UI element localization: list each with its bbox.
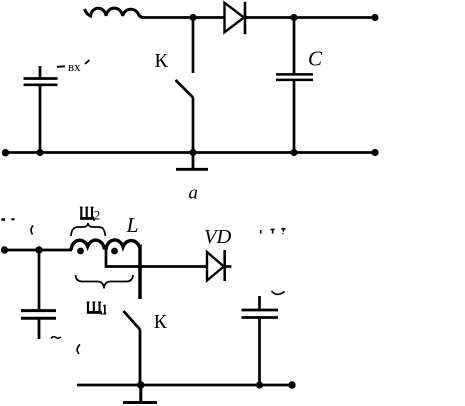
diode VD1 cathode bar — [244, 2, 247, 34]
label Cvx fragment — [57, 60, 90, 67]
switch K1 blade — [176, 80, 194, 98]
capacitor Cvx stub — [39, 66, 42, 78]
label Cn fragment — [272, 291, 285, 294]
wire diode2 output stub — [225, 265, 232, 268]
wire tap to diode — [106, 248, 207, 267]
inductor winding w1 — [106, 240, 140, 250]
svg-text:2: 2 — [94, 207, 101, 222]
svg-text:вх: вх — [68, 59, 81, 74]
label w2 — [80, 207, 94, 221]
diode VD2 cathode bar — [223, 250, 226, 281]
node junction Cvx bottom — [36, 149, 43, 156]
capacitor Cn plates — [242, 310, 279, 318]
switch K2 blade — [124, 311, 141, 330]
node input terminal bottom-left — [2, 149, 9, 156]
inductor L (top circuit) — [85, 8, 145, 17]
ground symbol 2 — [123, 385, 157, 403]
label C2 fragment — [51, 337, 61, 339]
capacitor Cvx2 lead lower — [38, 320, 41, 340]
node junction switch bottom — [189, 149, 196, 156]
label w1 — [87, 302, 102, 315]
svg-text:а: а — [189, 183, 199, 204]
capacitor Cvx2 lead upper — [38, 250, 41, 309]
svg-text:К: К — [154, 312, 168, 333]
svg-text:VD: VD — [204, 226, 232, 248]
node junction top-switch — [189, 14, 196, 21]
brace under w1w2 — [76, 275, 134, 289]
label Un fragment — [261, 229, 286, 235]
wire top rail — [142, 16, 225, 19]
node output terminal top — [371, 14, 378, 21]
capacitor C lead upper — [293, 18, 296, 74]
ground symbol a — [176, 153, 208, 170]
capacitor Cvx2 plates — [21, 311, 56, 319]
inductor winding w2 — [71, 240, 105, 250]
label bracket fragment 2 — [31, 226, 33, 235]
capacitor Cvx plates — [24, 79, 58, 85]
svg-text:L: L — [126, 213, 139, 237]
brace over w2 — [71, 223, 105, 236]
capacitor Cn lead lower — [258, 319, 261, 385]
label bracket fragment — [77, 345, 80, 355]
node junction C bottom — [290, 149, 297, 156]
capacitor C lead lower — [293, 81, 296, 153]
capacitor Cvx lead lower — [39, 86, 42, 153]
node terminal bottom-right — [288, 381, 295, 388]
node junction top-capacitor — [290, 14, 297, 21]
wire input bottom-circuit — [4, 249, 72, 252]
capacitor C plates — [276, 74, 313, 80]
node junction switch2 bottom — [137, 381, 144, 388]
wire switch upper lead — [192, 18, 195, 74]
wire bottom rail top-circuit — [6, 151, 376, 154]
wire diode to output — [245, 16, 375, 19]
wire bottom rail bottom-circuit — [77, 384, 292, 387]
capacitor Cn stub — [258, 296, 261, 309]
node junction Cn bottom — [256, 381, 263, 388]
node input terminal 2 — [1, 246, 8, 253]
label U fragment — [2, 218, 15, 221]
wire switch lower lead — [192, 98, 195, 153]
node junction Cvx2 — [35, 246, 42, 253]
svg-text:К: К — [155, 50, 169, 72]
node output terminal bottom — [371, 149, 378, 156]
svg-text:C: C — [308, 47, 323, 71]
polarity dot w2 — [77, 248, 84, 255]
diode VD2 triangle — [207, 252, 224, 281]
wire winding end down — [138, 245, 142, 300]
polarity dot w1 — [111, 248, 118, 255]
wire switch2 lower lead — [139, 330, 142, 386]
diode VD1 triangle — [225, 3, 245, 32]
